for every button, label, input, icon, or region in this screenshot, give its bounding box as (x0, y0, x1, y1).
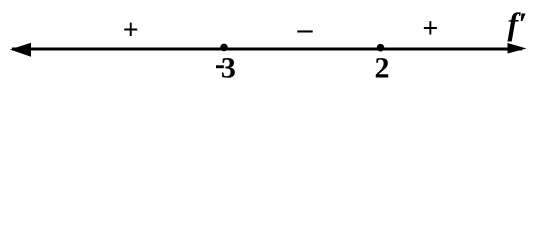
point node at x=2 (377, 44, 385, 52)
right arrowhead (508, 43, 527, 54)
svg-text:+: + (123, 15, 139, 46)
svg-text:2: 2 (375, 52, 390, 85)
svg-text:3: 3 (221, 52, 236, 85)
number line axis (wire) (12, 48, 522, 51)
plus sign, left interval (123, 15, 139, 46)
plus sign, right interval (422, 14, 438, 45)
minus sign, middle interval (297, 13, 314, 46)
value label -3 (216, 52, 236, 85)
left arrowhead (10, 43, 31, 57)
minus sign of label -3 (216, 65, 224, 68)
svg-text:f′: f′ (508, 6, 528, 42)
f prime label (508, 6, 528, 42)
svg-text:–: – (297, 13, 314, 46)
point node at x=-3 (220, 44, 228, 52)
svg-text:+: + (422, 14, 438, 45)
value label 2 (375, 52, 390, 85)
